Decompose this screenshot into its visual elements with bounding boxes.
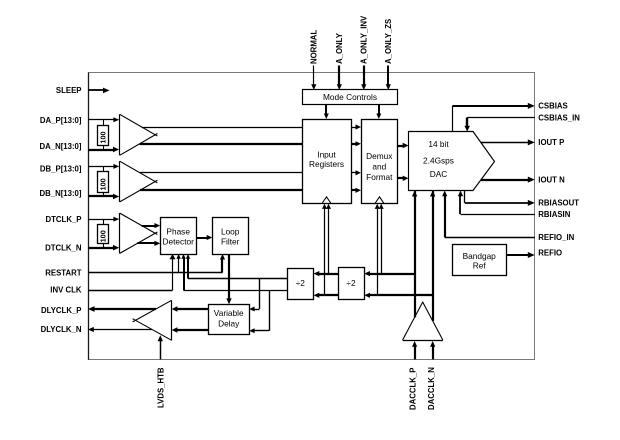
svg-text:A_ONLY_INV: A_ONLY_INV	[359, 15, 368, 64]
svg-text:DACCLK_P: DACCLK_P	[409, 368, 418, 410]
svg-text:100: 100	[99, 230, 108, 242]
svg-text:DTCLK_N: DTCLK_N	[45, 244, 82, 253]
svg-text:LVDS_HTB: LVDS_HTB	[156, 367, 165, 408]
svg-text:DA_N[13:0]: DA_N[13:0]	[39, 142, 81, 151]
svg-text:DLYCLK_N: DLYCLK_N	[41, 325, 82, 334]
svg-text:Input: Input	[317, 150, 336, 160]
svg-text:DA_P[13:0]: DA_P[13:0]	[40, 116, 82, 125]
svg-text:DAC: DAC	[430, 169, 448, 179]
svg-text:DTCLK_P: DTCLK_P	[46, 215, 82, 224]
svg-text:÷2: ÷2	[296, 278, 306, 288]
svg-text:IOUT N: IOUT N	[538, 175, 565, 184]
svg-text:÷2: ÷2	[346, 278, 356, 288]
svg-text:RESTART: RESTART	[45, 269, 81, 278]
svg-text:DACCLK_N: DACCLK_N	[427, 367, 436, 410]
svg-text:RBIASOUT: RBIASOUT	[538, 199, 579, 208]
svg-text:2.4Gsps: 2.4Gsps	[423, 155, 454, 165]
svg-text:CSBIAS: CSBIAS	[538, 102, 567, 111]
svg-text:Ref: Ref	[473, 260, 487, 270]
svg-text:Filter: Filter	[221, 237, 240, 247]
svg-text:REFIO_IN: REFIO_IN	[538, 233, 574, 242]
svg-text:A_ONLY_ZS: A_ONLY_ZS	[384, 19, 393, 64]
svg-text:IOUT P: IOUT P	[538, 138, 564, 147]
svg-text:Mode Controls: Mode Controls	[323, 92, 377, 102]
svg-text:and: and	[372, 162, 386, 172]
svg-text:Format: Format	[366, 172, 393, 182]
svg-text:DB_P[13:0]: DB_P[13:0]	[40, 164, 82, 173]
svg-text:INV CLK: INV CLK	[50, 286, 82, 295]
svg-text:Demux: Demux	[366, 151, 393, 161]
svg-text:Registers: Registers	[309, 159, 344, 169]
svg-text:100: 100	[99, 178, 108, 190]
svg-text:Delay: Delay	[218, 318, 240, 328]
svg-text:NORMAL: NORMAL	[309, 30, 318, 64]
svg-text:Phase: Phase	[166, 226, 190, 236]
svg-text:Detector: Detector	[163, 237, 195, 247]
svg-text:A_ONLY: A_ONLY	[335, 32, 344, 64]
svg-text:14 bit: 14 bit	[428, 139, 449, 149]
svg-text:Variable: Variable	[214, 308, 244, 318]
svg-text:SLEEP: SLEEP	[56, 86, 82, 95]
svg-text:REFIO: REFIO	[538, 248, 562, 257]
svg-text:Loop: Loop	[221, 226, 240, 236]
svg-text:DB_N[13:0]: DB_N[13:0]	[39, 189, 81, 198]
svg-text:DLYCLK_P: DLYCLK_P	[41, 306, 81, 315]
svg-text:RBIASIN: RBIASIN	[538, 210, 570, 219]
svg-text:CSBIAS_IN: CSBIAS_IN	[538, 113, 580, 122]
svg-text:100: 100	[99, 131, 108, 143]
